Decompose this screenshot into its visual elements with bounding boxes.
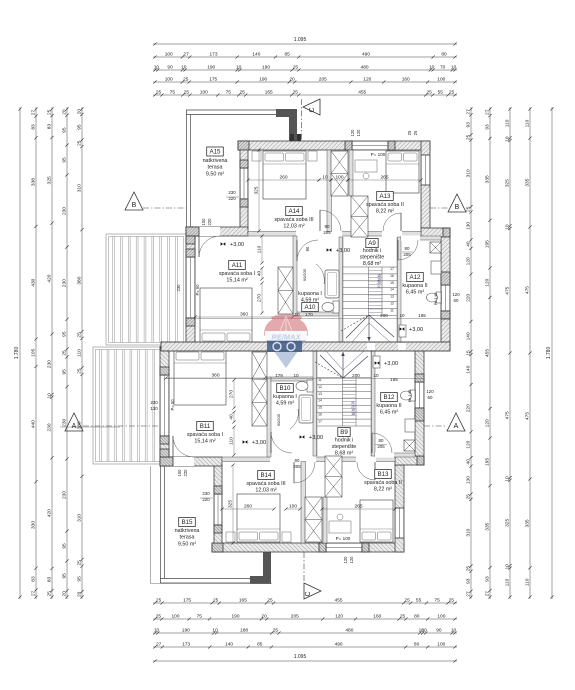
- wardrobe corridor: [351, 196, 368, 237]
- svg-text:120: 120: [349, 556, 354, 564]
- svg-text:spavaća soba II: spavaća soba II: [366, 202, 404, 208]
- svg-text:230: 230: [47, 423, 53, 431]
- svg-text:480: 480: [345, 628, 353, 634]
- svg-text:6,45 m²: 6,45 m²: [380, 410, 398, 416]
- svg-text:310: 310: [76, 514, 82, 522]
- svg-text:480: 480: [361, 65, 369, 71]
- svg-text:120: 120: [363, 77, 371, 83]
- svg-text:165: 165: [239, 598, 247, 604]
- svg-text:165: 165: [390, 377, 398, 382]
- svg-text:10: 10: [236, 65, 242, 71]
- svg-text:40: 40: [257, 271, 263, 277]
- svg-text:10: 10: [293, 373, 299, 378]
- svg-text:17: 17: [318, 419, 322, 423]
- top dimension chains: [153, 43, 457, 45]
- svg-text:90: 90: [295, 458, 300, 463]
- svg-text:75: 75: [434, 598, 440, 604]
- svg-text:130: 130: [466, 476, 472, 484]
- section marker B left: [125, 192, 143, 210]
- svg-text:230: 230: [150, 400, 158, 405]
- svg-text:95: 95: [76, 576, 82, 582]
- interior partition A14 east: [327, 150, 332, 232]
- svg-text:490: 490: [362, 52, 370, 58]
- svg-text:spavaća soba I: spavaća soba I: [219, 271, 255, 277]
- svg-text:25: 25: [400, 614, 406, 620]
- interior partition A11/A10: [293, 236, 297, 316]
- svg-text:8,22 m²: 8,22 m²: [376, 209, 394, 215]
- svg-text:10: 10: [154, 65, 160, 71]
- svg-text:95: 95: [61, 369, 67, 375]
- svg-text:325: 325: [254, 186, 260, 194]
- svg-text:40: 40: [466, 459, 472, 465]
- svg-text:B13: B13: [377, 471, 389, 478]
- svg-text:20: 20: [77, 109, 83, 115]
- svg-text:100: 100: [200, 90, 208, 96]
- svg-text:475: 475: [504, 411, 510, 419]
- svg-text:55: 55: [438, 90, 444, 96]
- svg-text:120: 120: [350, 129, 355, 137]
- svg-text:170: 170: [305, 312, 313, 317]
- svg-text:40: 40: [465, 241, 471, 247]
- svg-text:6,45 m²: 6,45 m²: [406, 290, 424, 296]
- svg-text:20: 20: [289, 77, 295, 83]
- svg-text:179: 179: [275, 373, 283, 378]
- desk A13: [355, 160, 377, 172]
- svg-text:14: 14: [318, 399, 322, 403]
- svg-text:+3,00: +3,00: [336, 248, 350, 254]
- svg-text:25: 25: [293, 65, 299, 71]
- svg-text:25: 25: [76, 332, 82, 338]
- svg-text:130: 130: [465, 222, 471, 230]
- room labels unit B: [197, 422, 214, 431]
- unit B: mirrored geometry: [160, 347, 424, 585]
- sink corridor: [399, 325, 406, 337]
- svg-text:B11: B11: [200, 423, 211, 430]
- svg-text:205: 205: [319, 77, 327, 83]
- svg-text:325: 325: [46, 176, 52, 184]
- svg-text:hodnik i: hodnik i: [363, 248, 382, 254]
- svg-text:270: 270: [229, 390, 235, 398]
- svg-text:200: 200: [380, 313, 388, 318]
- svg-text:75: 75: [226, 90, 232, 96]
- bed A13: [386, 151, 419, 193]
- svg-text:A15: A15: [209, 149, 221, 156]
- svg-text:265: 265: [380, 175, 388, 181]
- svg-text:120: 120: [426, 389, 434, 394]
- svg-text:380: 380: [76, 276, 82, 284]
- svg-text:25: 25: [404, 598, 410, 604]
- svg-text:+3,00: +3,00: [230, 242, 244, 248]
- svg-text:21: 21: [377, 285, 381, 289]
- svg-text:8,68 m²: 8,68 m²: [363, 261, 381, 267]
- svg-text:25: 25: [465, 134, 471, 140]
- section marker A right: [447, 413, 465, 431]
- svg-text:75: 75: [197, 614, 203, 620]
- svg-text:100: 100: [165, 52, 173, 58]
- bottom dimension chains: [153, 602, 457, 604]
- svg-text:110: 110: [504, 119, 510, 127]
- svg-text:83: 83: [31, 576, 37, 582]
- terrace A15 parapet: [186, 109, 297, 111]
- svg-text:110: 110: [229, 437, 235, 445]
- shower A10: [325, 270, 339, 298]
- svg-text:12,03 m²: 12,03 m²: [255, 488, 276, 494]
- svg-text:stepenište: stepenište: [332, 444, 357, 450]
- vanity double sink on band: [267, 341, 302, 352]
- svg-text:P= 50: P= 50: [170, 399, 175, 411]
- svg-text:B: B: [132, 202, 137, 209]
- svg-text:230: 230: [202, 491, 210, 496]
- svg-text:265: 265: [354, 504, 362, 510]
- svg-text:220: 220: [183, 469, 188, 477]
- svg-text:260: 260: [279, 175, 287, 181]
- svg-text:195: 195: [484, 240, 490, 248]
- svg-text:A: A: [72, 423, 77, 430]
- svg-text:230: 230: [228, 190, 236, 195]
- svg-text:100: 100: [437, 77, 445, 83]
- svg-text:95: 95: [61, 543, 67, 549]
- svg-text:27: 27: [31, 590, 37, 596]
- svg-text:25: 25: [413, 130, 418, 135]
- svg-text:120: 120: [484, 419, 490, 427]
- svg-text:100: 100: [289, 504, 297, 510]
- svg-text:93: 93: [484, 576, 490, 582]
- svg-text:1.095: 1.095: [294, 654, 307, 660]
- svg-text:1.780: 1.780: [14, 347, 20, 360]
- svg-text:140: 140: [465, 365, 471, 373]
- svg-text:12: 12: [318, 385, 322, 389]
- svg-text:55: 55: [416, 598, 422, 604]
- svg-text:25: 25: [273, 628, 279, 634]
- svg-text:110: 110: [525, 119, 531, 127]
- svg-text:440: 440: [30, 420, 36, 428]
- svg-text:27: 27: [465, 591, 471, 597]
- svg-text:25: 25: [77, 368, 83, 374]
- svg-text:95: 95: [61, 573, 67, 579]
- svg-text:12: 12: [390, 302, 394, 306]
- svg-text:spavaća soba II: spavaća soba II: [364, 480, 402, 486]
- svg-text:130: 130: [150, 406, 158, 411]
- svg-text:100: 100: [177, 469, 182, 477]
- svg-text:80: 80: [379, 438, 384, 443]
- svg-text:27: 27: [484, 109, 490, 115]
- svg-text:80: 80: [414, 642, 420, 648]
- svg-text:110: 110: [524, 578, 530, 586]
- svg-text:25: 25: [156, 614, 162, 620]
- svg-text:17: 17: [390, 267, 394, 271]
- svg-text:360: 360: [240, 312, 248, 318]
- svg-text:475: 475: [505, 286, 511, 294]
- svg-text:230: 230: [176, 284, 181, 292]
- svg-text:100: 100: [171, 614, 179, 620]
- svg-text:100: 100: [201, 218, 206, 226]
- svg-text:205: 205: [403, 252, 411, 257]
- wardrobe A11/A10: [278, 267, 293, 314]
- svg-text:+3,00: +3,00: [409, 327, 423, 333]
- svg-text:25: 25: [427, 90, 433, 96]
- svg-text:spavaća soba III: spavaća soba III: [274, 217, 313, 223]
- svg-text:B9: B9: [340, 429, 348, 436]
- svg-text:8,68 m²: 8,68 m²: [335, 451, 353, 457]
- svg-text:360: 360: [211, 373, 219, 379]
- svg-text:100: 100: [437, 614, 445, 620]
- svg-text:kupaona II: kupaona II: [402, 283, 427, 289]
- svg-text:230: 230: [61, 491, 67, 499]
- svg-text:100: 100: [165, 77, 173, 83]
- svg-text:220: 220: [207, 218, 212, 226]
- interior partition A14/A11 - corridor (horizontal): [248, 232, 421, 237]
- svg-text:12,03 m²: 12,03 m²: [283, 224, 304, 230]
- svg-text:205: 205: [377, 444, 385, 449]
- svg-text:160: 160: [373, 614, 381, 620]
- svg-text:8,22 m²: 8,22 m²: [374, 487, 392, 493]
- svg-text:93: 93: [465, 578, 471, 584]
- svg-text:spavaća soba I: spavaća soba I: [187, 432, 223, 438]
- nightstand A14: [252, 151, 261, 161]
- svg-text:13: 13: [318, 392, 322, 396]
- svg-text:hodnik i: hodnik i: [335, 438, 354, 444]
- svg-text:83: 83: [46, 124, 52, 130]
- svg-text:B14: B14: [260, 472, 272, 479]
- svg-text:230: 230: [46, 360, 52, 368]
- svg-text:75: 75: [170, 90, 176, 96]
- svg-text:25: 25: [46, 591, 52, 597]
- svg-text:80: 80: [405, 246, 410, 251]
- svg-text:25: 25: [184, 90, 190, 96]
- door A13: [400, 213, 402, 231]
- svg-text:25: 25: [466, 566, 472, 572]
- party floor band: [161, 342, 450, 351]
- svg-text:83: 83: [30, 124, 36, 130]
- extra closet cell B: [252, 352, 267, 379]
- svg-text:200: 200: [352, 373, 360, 378]
- svg-text:10: 10: [322, 175, 328, 181]
- svg-text:27: 27: [156, 642, 162, 648]
- svg-text:15,14 m²: 15,14 m²: [194, 439, 215, 445]
- svg-text:310: 310: [466, 169, 472, 177]
- svg-text:100: 100: [437, 642, 445, 648]
- svg-text:455: 455: [358, 90, 366, 96]
- svg-text:188: 188: [240, 628, 248, 634]
- svg-text:terasa: terasa: [180, 535, 195, 541]
- bed A11: [200, 288, 252, 343]
- svg-text:90: 90: [305, 246, 310, 251]
- svg-text:455: 455: [485, 349, 491, 357]
- svg-text:A10: A10: [304, 304, 316, 311]
- svg-text:natkrivena: natkrivena: [203, 158, 228, 164]
- right dimension chains: [470, 107, 472, 599]
- svg-text:230: 230: [61, 418, 67, 426]
- svg-text:25: 25: [47, 109, 53, 115]
- svg-text:330: 330: [31, 521, 37, 529]
- door A10: [296, 240, 298, 261]
- svg-text:1.780: 1.780: [546, 347, 552, 360]
- svg-text:165: 165: [265, 90, 273, 96]
- svg-text:95: 95: [62, 331, 68, 337]
- svg-text:15,14 m²: 15,14 m²: [226, 278, 247, 284]
- svg-text:25: 25: [213, 598, 219, 604]
- svg-text:95: 95: [62, 157, 68, 163]
- sink A12: [431, 261, 441, 274]
- svg-text:18: 18: [351, 412, 355, 416]
- section marker A left: [65, 413, 83, 431]
- svg-text:140: 140: [225, 642, 233, 648]
- svg-text:90: 90: [436, 628, 442, 634]
- svg-text:260: 260: [244, 504, 252, 510]
- svg-text:420: 420: [47, 509, 53, 517]
- svg-text:205: 205: [293, 464, 301, 469]
- svg-text:110: 110: [77, 349, 83, 357]
- level marks: [221, 242, 226, 246]
- svg-text:173: 173: [209, 52, 217, 58]
- door terrace A15 -> A11: [198, 236, 200, 257]
- svg-text:175: 175: [209, 77, 217, 83]
- svg-text:1.095: 1.095: [294, 37, 307, 43]
- svg-text:475: 475: [524, 286, 530, 294]
- door A12: [397, 240, 399, 260]
- svg-text:16: 16: [390, 274, 394, 278]
- svg-text:25: 25: [76, 560, 82, 566]
- svg-text:25: 25: [62, 350, 68, 356]
- exterior wall: A12 east: [441, 237, 450, 347]
- svg-text:230: 230: [62, 279, 68, 287]
- svg-text:P= 50: P= 50: [195, 284, 200, 296]
- svg-text:spavaća soba III: spavaća soba III: [246, 481, 285, 487]
- svg-text:195: 195: [485, 458, 491, 466]
- svg-text:kupaona I: kupaona I: [273, 394, 297, 400]
- svg-text:90: 90: [325, 224, 330, 229]
- svg-text:335: 335: [525, 178, 531, 186]
- svg-text:325: 325: [504, 179, 510, 187]
- svg-text:310: 310: [77, 184, 83, 192]
- svg-text:220: 220: [465, 404, 471, 412]
- svg-text:175: 175: [183, 598, 191, 604]
- svg-text:A13: A13: [379, 193, 391, 200]
- svg-text:60: 60: [454, 298, 459, 303]
- svg-text:B12: B12: [383, 394, 395, 401]
- svg-text:C: C: [309, 107, 316, 112]
- svg-text:90/205: 90/205: [302, 268, 307, 281]
- svg-text:120: 120: [343, 556, 348, 564]
- svg-text:25: 25: [449, 90, 455, 96]
- svg-text:25: 25: [240, 90, 246, 96]
- svg-text:13: 13: [390, 295, 394, 299]
- svg-text:430: 430: [31, 278, 37, 286]
- svg-text:27: 27: [30, 110, 36, 116]
- svg-text:120: 120: [335, 614, 343, 620]
- svg-text:190: 190: [182, 628, 190, 634]
- svg-text:120: 120: [485, 278, 491, 286]
- svg-text:95: 95: [77, 124, 83, 130]
- svg-text:4,59 m²: 4,59 m²: [276, 401, 294, 407]
- svg-text:25: 25: [466, 206, 472, 212]
- interior partition A13 west: [349, 150, 353, 196]
- svg-text:10: 10: [399, 313, 405, 318]
- svg-text:120: 120: [466, 257, 472, 265]
- svg-text:25: 25: [77, 140, 83, 146]
- svg-text:C: C: [305, 591, 312, 596]
- svg-text:Pk 140: Pk 140: [407, 389, 412, 402]
- shaft A12: [430, 242, 441, 253]
- svg-text:85: 85: [285, 52, 291, 58]
- room labels unit A: [207, 147, 224, 156]
- section marker C bottom: [304, 583, 321, 599]
- svg-text:10: 10: [181, 65, 187, 71]
- svg-text:15: 15: [318, 406, 322, 410]
- svg-text:90/205: 90/205: [276, 413, 281, 426]
- exterior wall: terrace A15 south / A11 north: [186, 227, 248, 236]
- pergola A (upper-left striped canopy): [106, 234, 186, 345]
- svg-text:+3,00: +3,00: [309, 435, 323, 441]
- svg-text:110: 110: [257, 245, 263, 253]
- svg-text:338: 338: [31, 178, 37, 186]
- exterior wall: top (A14/A13 north): [238, 141, 430, 150]
- svg-text:93: 93: [466, 122, 472, 128]
- svg-text:25: 25: [293, 90, 299, 96]
- svg-text:14: 14: [390, 288, 394, 292]
- internal dimensions: [248, 179, 319, 181]
- svg-text:160: 160: [402, 77, 410, 83]
- svg-text:P= 100: P= 100: [371, 152, 386, 157]
- svg-text:20: 20: [261, 614, 267, 620]
- partition A10 south: [297, 312, 339, 316]
- svg-text:120: 120: [452, 292, 460, 297]
- svg-text:205: 205: [291, 614, 299, 620]
- terrace B15 outer edge: [150, 466, 152, 584]
- door A14->hall: [319, 210, 321, 231]
- svg-text:A14: A14: [288, 208, 300, 215]
- toilet A10: [333, 301, 339, 313]
- svg-text:9,50 m²: 9,50 m²: [178, 542, 196, 548]
- svg-text:B15: B15: [181, 519, 193, 526]
- svg-text:B: B: [455, 204, 460, 211]
- svg-text:475: 475: [525, 412, 531, 420]
- svg-text:A9: A9: [368, 240, 376, 247]
- section marker C top: [303, 99, 320, 115]
- svg-text:25: 25: [156, 598, 162, 604]
- svg-text:25: 25: [156, 90, 162, 96]
- svg-text:310: 310: [465, 528, 471, 536]
- svg-text:95: 95: [62, 127, 68, 133]
- stairs A cut lines: [346, 315, 369, 338]
- svg-text:120: 120: [465, 440, 471, 448]
- svg-text:Pk 140: Pk 140: [433, 292, 438, 305]
- svg-text:325: 325: [505, 519, 511, 527]
- svg-text:220: 220: [202, 497, 210, 502]
- pergola B (lower-left striped canopy): [93, 347, 163, 464]
- svg-text:terasa: terasa: [208, 165, 223, 171]
- partition A12 north: [401, 236, 441, 240]
- chimney at section line: [290, 134, 294, 141]
- svg-text:335: 335: [524, 519, 530, 527]
- svg-text:16: 16: [318, 413, 322, 417]
- svg-text:455: 455: [335, 598, 343, 604]
- svg-text:110: 110: [505, 578, 511, 586]
- svg-text:93: 93: [485, 124, 491, 130]
- svg-text:173: 173: [182, 642, 190, 648]
- svg-text:A12: A12: [409, 274, 421, 281]
- svg-text:140: 140: [466, 332, 472, 340]
- exterior wall: step (north-east): [421, 228, 450, 237]
- section marker B right: [448, 194, 466, 212]
- svg-text:A11: A11: [232, 262, 243, 269]
- svg-text:335: 335: [484, 175, 490, 183]
- svg-text:20: 20: [61, 109, 67, 115]
- svg-text:25: 25: [267, 598, 273, 604]
- svg-text:220: 220: [466, 293, 472, 301]
- svg-text:165: 165: [418, 313, 426, 318]
- svg-text:P= 100: P= 100: [336, 536, 351, 541]
